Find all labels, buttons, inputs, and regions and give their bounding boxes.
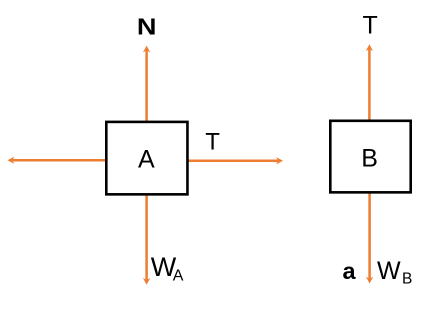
svg-text:A: A (173, 267, 184, 284)
svg-text:W: W (377, 257, 401, 285)
svg-text:a: a (343, 258, 357, 284)
svg-text:A: A (138, 146, 155, 174)
svg-text:B: B (402, 270, 412, 287)
svg-text:T: T (205, 129, 220, 156)
svg-text:T: T (363, 11, 378, 39)
svg-text:B: B (361, 145, 378, 173)
svg-text:N: N (137, 14, 157, 40)
